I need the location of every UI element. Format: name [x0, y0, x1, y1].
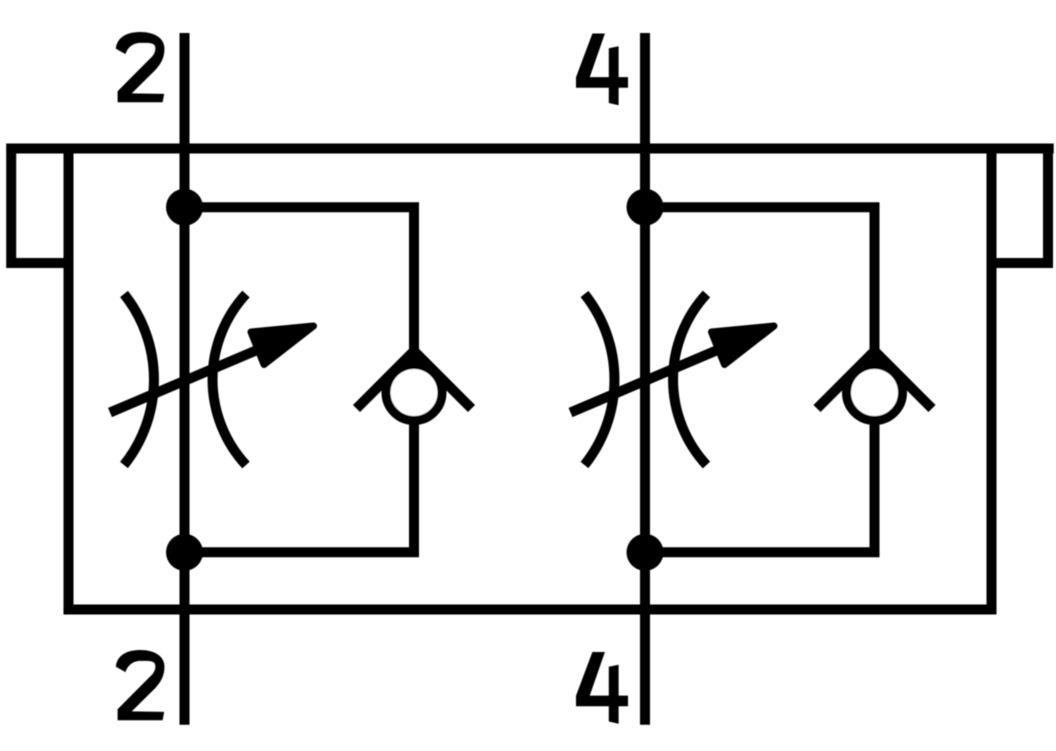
throttle V2 arrowhead [712, 326, 775, 365]
label 2 bottom [116, 650, 165, 720]
port line 2 [180, 33, 190, 725]
junction dot top right [627, 189, 664, 226]
throttle V2 right arc [673, 294, 706, 465]
wire bypass branch right top [645, 207, 875, 362]
port line 4 [640, 33, 650, 725]
junction dot bottom left [166, 534, 203, 571]
throttle V2 left arc [585, 294, 615, 465]
wire bypass branch left top [185, 207, 415, 362]
enclosure box [69, 149, 992, 610]
wire bypass branch left bottom [185, 418, 415, 552]
check valve right circle [847, 365, 903, 421]
junction dot top left [166, 189, 203, 226]
throttle V2 arrow shaft [571, 348, 723, 413]
throttle V1 arrow shaft [110, 348, 262, 413]
right notch [992, 149, 1049, 264]
label 4 top [576, 34, 628, 106]
check valve left circle [386, 365, 442, 421]
throttle V1 left arc [124, 294, 154, 465]
left notch [11, 149, 68, 264]
label 4 bottom [576, 652, 628, 724]
enclosure top rail [6, 144, 1053, 154]
throttle V1 arrowhead [251, 326, 314, 365]
label 2 top [116, 32, 165, 102]
wire bypass branch right bottom [645, 418, 875, 552]
check valve left seat [357, 351, 472, 409]
check valve right seat [817, 351, 932, 409]
throttle V1 right arc [213, 294, 246, 465]
junction dot bottom right [627, 534, 664, 571]
